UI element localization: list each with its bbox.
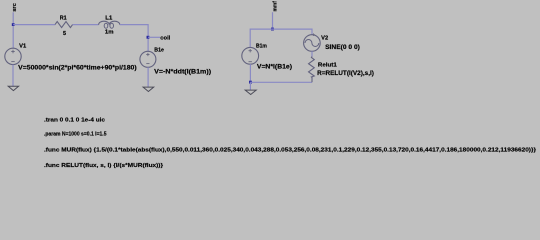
svg-text:.tran 0 0.1 0 1e-4 uic: .tran 0 0.1 0 1e-4 uic: [44, 117, 106, 123]
svg-text:R=RELUT(I(V2),s,l): R=RELUT(I(V2),s,l): [317, 71, 374, 77]
svg-text:V1: V1: [19, 44, 26, 50]
wire L1 to corner and down to coil junction: [120, 25, 148, 52]
junction coil node: [147, 36, 150, 39]
ground (B1e): [143, 87, 154, 91]
junction bottom rail: [249, 81, 252, 84]
svg-text:src: src: [12, 3, 18, 12]
svg-text:Relut1: Relut1: [318, 62, 337, 68]
svg-text:1m: 1m: [105, 30, 114, 36]
svg-text:L1: L1: [105, 16, 112, 22]
behavioral source B1m: [242, 47, 259, 64]
wire B1e bottom to ground: [147, 67, 149, 87]
inductor L1: [99, 21, 120, 25]
wire coil stub: [148, 36, 160, 38]
wire bottom rail: [250, 81, 312, 83]
svg-text:B1m: B1m: [256, 44, 267, 50]
junction at src node: [12, 23, 15, 26]
junction mmf node: [271, 28, 274, 31]
resistor Relut1 (vertical): [309, 57, 315, 83]
wire src stub down to junction and on to V1 top: [12, 12, 14, 48]
wire top rail of right loop: [250, 29, 312, 47]
svg-text:.param N=1000 s=0.1 l=1.5: .param N=1000 s=0.1 l=1.5: [44, 131, 107, 137]
svg-text:V=N*I(B1e): V=N*I(B1e): [257, 64, 292, 70]
svg-text:B1e: B1e: [154, 48, 164, 54]
behavioral source B1e: [140, 51, 156, 67]
voltage source V1: [5, 48, 21, 64]
svg-text:V=-N*ddt(I(B1m)): V=-N*ddt(I(B1m)): [154, 69, 211, 75]
svg-text:.func RELUT(flux, s, l) {l/(s*: .func RELUT(flux, s, l) {l/(s*MUR(flux))…: [44, 163, 164, 169]
ground (V1): [8, 86, 18, 90]
svg-text:5: 5: [63, 31, 66, 37]
wire R1 to L1: [73, 24, 99, 26]
ground (B1m): [245, 90, 256, 94]
wire mmf stub: [272, 12, 274, 29]
voltage source V2 (sine): [304, 35, 321, 52]
wire junction to R1: [13, 24, 55, 26]
svg-text:mmf: mmf: [273, 1, 279, 12]
svg-text:SINE(0 0 0): SINE(0 0 0): [325, 45, 360, 51]
wire B1m bottom to bottom rail junction: [249, 64, 251, 82]
svg-text:V=50000*sin(2*pi*60*time+90*pi: V=50000*sin(2*pi*60*time+90*pi/180): [18, 66, 137, 72]
wire ground stub (B1m): [249, 82, 251, 90]
svg-text:R1: R1: [60, 16, 67, 22]
svg-text:.func MUR(flux) {1.5/(0.1*tabl: .func MUR(flux) {1.5/(0.1*table(abs(flux…: [44, 147, 537, 153]
svg-text:coil: coil: [160, 36, 170, 42]
wire V1 bottom to ground: [12, 65, 14, 87]
wire V2 bottom to Relut1: [311, 51, 313, 56]
resistor R1: [55, 22, 73, 28]
svg-text:V2: V2: [321, 35, 328, 41]
